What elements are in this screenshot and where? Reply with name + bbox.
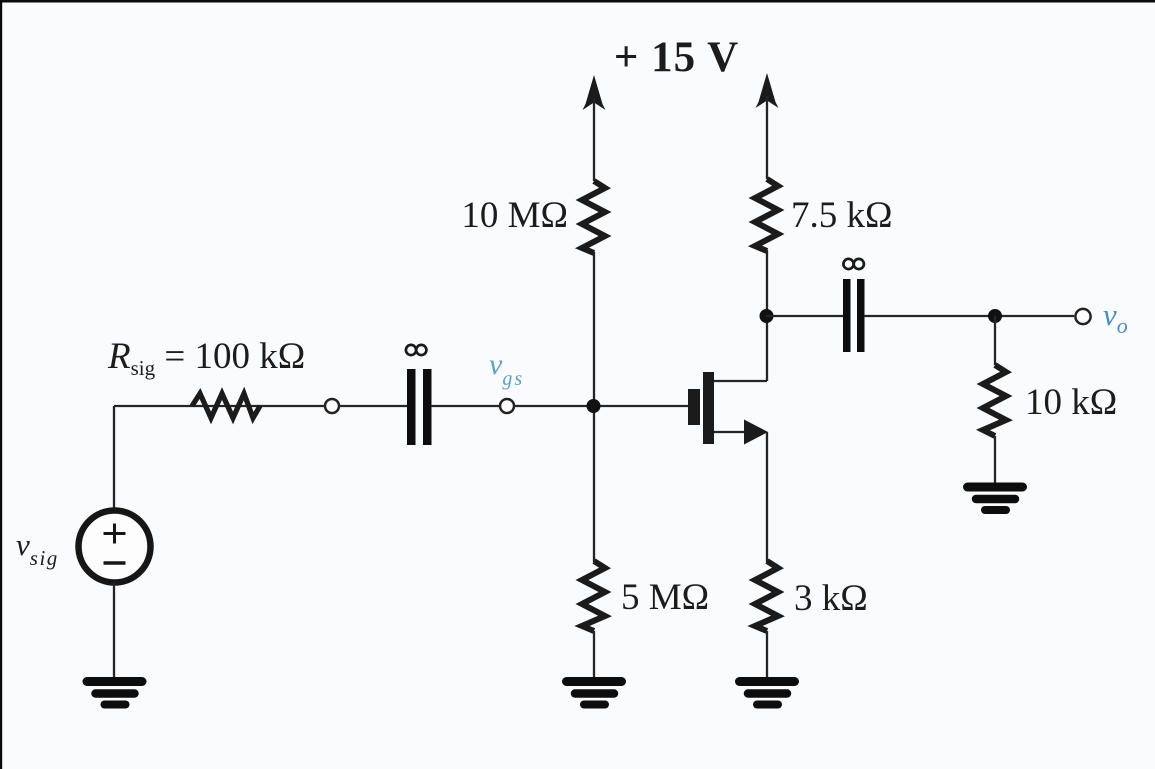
svg-text:5 MΩ: 5 MΩ: [621, 577, 709, 618]
capacitor CC2 (infinite): [843, 279, 851, 352]
ground (vsig): [87, 682, 142, 705]
svg-text:7.5 kΩ: 7.5 kΩ: [791, 195, 893, 236]
ground (output load): [968, 487, 1023, 510]
node: output junction dot: [988, 309, 1002, 323]
terminal: open circle v_gs node: [500, 399, 514, 413]
wire: left rail top: [593, 98, 595, 181]
minus sign: [104, 561, 126, 564]
svg-text:vgs: vgs: [489, 348, 524, 390]
gate bar: [688, 389, 700, 425]
terminal: open circle after Rsig: [325, 399, 339, 413]
supply arrow (right rail): [756, 73, 779, 108]
resistor RG2 5 MOhm: [582, 561, 605, 631]
supply arrow (left rail): [583, 75, 606, 110]
infinity label above CC2: [843, 259, 853, 269]
svg-text:+ 15 V: + 15 V: [614, 34, 739, 81]
wire: right rail drain segment: [766, 250, 768, 381]
border frame top/left: [0, 0, 1155, 3]
resistor RS 3 kOhm: [755, 561, 778, 631]
wire: cap to gate: [431, 405, 688, 407]
drain tap wire: [714, 380, 767, 382]
svg-text:vsig: vsig: [16, 527, 59, 570]
channel bar: [703, 372, 714, 444]
svg-text:10 MΩ: 10 MΩ: [461, 195, 568, 236]
wire: cap to output terminal: [864, 315, 1074, 317]
node: gate junction dot: [587, 399, 601, 413]
svg-text:10 kΩ: 10 kΩ: [1025, 382, 1117, 423]
resistor RD 7.5 kOhm: [755, 179, 778, 251]
ground (source): [740, 682, 795, 705]
resistor RL 10 kOhm: [994, 316, 996, 365]
svg-text:vo: vo: [1103, 297, 1128, 338]
resistor RG1 10 MOhm: [582, 181, 605, 253]
svg-text:Rsig = 100 kΩ: Rsig = 100 kΩ: [107, 336, 305, 380]
source tap wire: [714, 431, 752, 433]
source circle: [79, 511, 151, 583]
wire: RL to ground: [994, 436, 996, 483]
wire: source to ground: [113, 583, 115, 678]
capacitor CC1 (infinite): [407, 369, 416, 445]
plus sign: [104, 524, 126, 544]
wire: drain node to output cap: [766, 315, 843, 317]
source arrow: [744, 420, 768, 445]
wire: RS to ground: [766, 631, 768, 679]
infinity label above CC1: [406, 345, 416, 355]
wire: corner down to source circle: [113, 406, 115, 511]
node: drain junction dot: [760, 309, 774, 323]
wire: gate line (vsig corner to input cap): [114, 405, 407, 407]
terminal: output open circle: [1075, 309, 1090, 324]
wire: left rail middle: [593, 252, 595, 562]
resistor Rsig 100 kOhm (horizontal): [192, 394, 260, 419]
svg-text:3 kΩ: 3 kΩ: [794, 578, 868, 619]
wire: RG2 to ground: [593, 631, 595, 679]
wire: source down to RS: [766, 432, 768, 562]
ground (left rail): [567, 682, 622, 705]
wire: right rail top: [766, 96, 768, 179]
